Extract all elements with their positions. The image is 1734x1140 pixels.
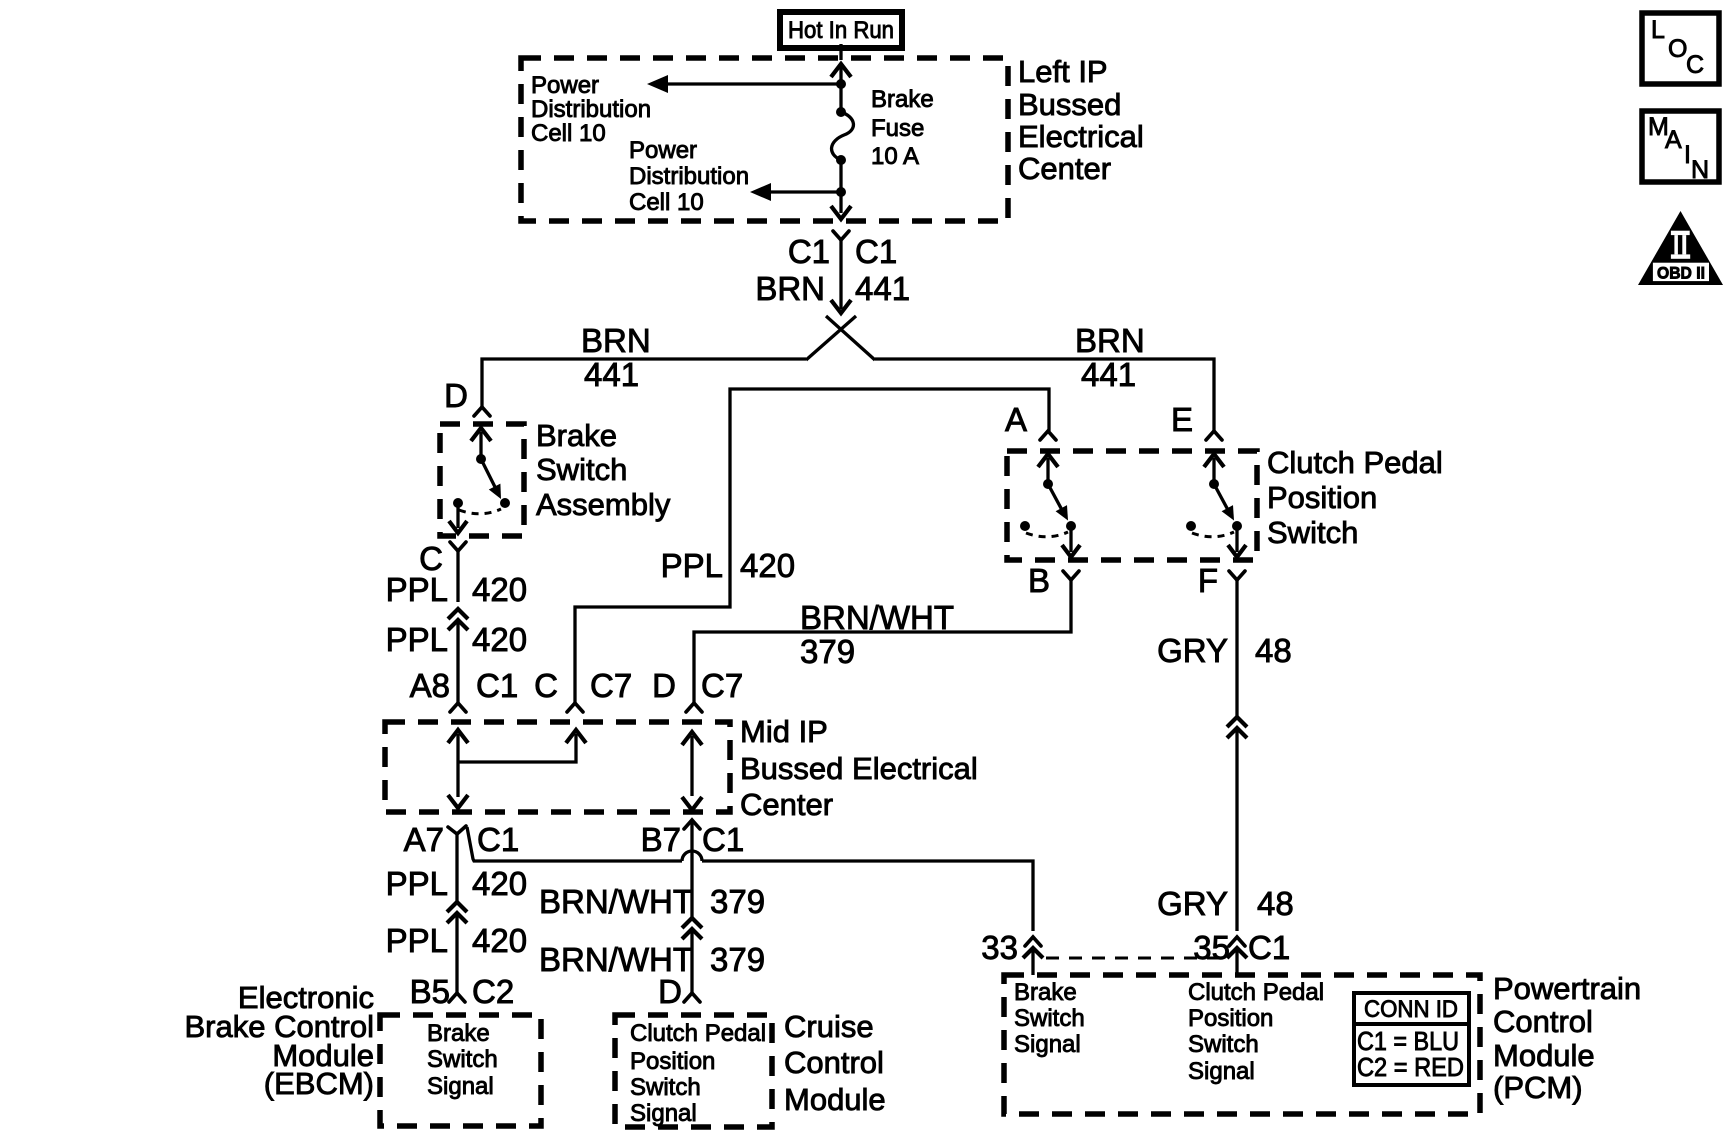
connector D fork at brake switch xyxy=(474,407,490,416)
label: Brake Switch Assembly xyxy=(536,418,671,522)
wire: BRN/WHT 379 down from B7 xyxy=(690,822,693,918)
svg-text:35: 35 xyxy=(1193,929,1230,966)
splice: in-line connector on BRN/WHT 379 to cruise module xyxy=(682,918,702,939)
svg-text:379: 379 xyxy=(710,941,765,978)
connector D fork at Mid IP BEC (C7) xyxy=(686,703,702,712)
label: D | C7 xyxy=(652,667,743,704)
svg-text:D: D xyxy=(652,667,676,704)
Brake Switch Signal box (EBCM) xyxy=(380,1015,541,1126)
label: Clutch Pedal Position Switch Signal (PCM) xyxy=(1188,979,1324,1085)
power source box: Hot In Run xyxy=(780,12,902,48)
node: junction dot feed/branch 1 xyxy=(836,79,846,89)
label: Brake Fuse 10 A xyxy=(871,86,934,170)
wire: GRY 48 to PCM pin 35 xyxy=(1235,729,1238,931)
svg-text:B7: B7 xyxy=(641,821,681,858)
label: Cruise Control Module xyxy=(784,1009,886,1117)
connector E fork at clutch switch xyxy=(1206,431,1222,440)
svg-text:C: C xyxy=(534,667,558,704)
svg-text:Clutch Pedal: Clutch Pedal xyxy=(630,1020,766,1047)
wire: PPL 420 down from A7 xyxy=(455,834,458,902)
svg-text:I: I xyxy=(1684,141,1691,169)
connector B5 fork at EBCM xyxy=(449,993,465,1002)
svg-text:Switch: Switch xyxy=(1267,515,1358,550)
splice: in-line connector on PPL 420 to EBCM xyxy=(447,902,467,923)
label: A7 | C1 xyxy=(404,821,520,858)
label: Mid IP Bussed Electrical Center xyxy=(740,714,978,822)
connector C1 fork below Left IP BEC xyxy=(833,231,849,240)
label: PPL | 420 (riser) xyxy=(661,547,795,584)
svg-text:Cell 10: Cell 10 xyxy=(531,120,606,147)
internal bus: A8 to A7 and C7-C inside Mid IP xyxy=(448,730,586,808)
svg-text:Clutch Pedal: Clutch Pedal xyxy=(1267,445,1443,480)
wire: BRN 441 right branch to clutch switch pin E xyxy=(875,359,1214,431)
label: Power Distribution Cell 10 (upper) xyxy=(531,72,651,147)
svg-text:Bussed Electrical: Bussed Electrical xyxy=(740,751,978,786)
label: GRY | 48 (lower) xyxy=(1157,885,1294,922)
label: BRN 441 (left branch) xyxy=(581,322,651,393)
svg-text:F: F xyxy=(1198,562,1218,599)
switch SW3: clutch switch E-F contacts xyxy=(1186,454,1246,557)
Powertrain Control Module box xyxy=(1004,975,1480,1114)
connector D fork at cruise module xyxy=(684,993,700,1002)
svg-text:PPL: PPL xyxy=(386,571,448,608)
svg-text:(PCM): (PCM) xyxy=(1493,1070,1583,1105)
svg-text:B: B xyxy=(1028,562,1050,599)
svg-text:OBD II: OBD II xyxy=(1657,264,1705,283)
svg-text:Power: Power xyxy=(531,72,599,99)
svg-text:Left IP: Left IP xyxy=(1018,54,1108,89)
svg-text:C2 = RED: C2 = RED xyxy=(1357,1052,1464,1082)
svg-text:BRN: BRN xyxy=(755,270,825,307)
svg-text:A7: A7 xyxy=(404,821,444,858)
label: C1 | C1 xyxy=(788,233,897,270)
switch SW1: brake switch contacts xyxy=(449,428,510,533)
svg-text:33: 33 xyxy=(981,929,1018,966)
svg-text:Brake: Brake xyxy=(427,1020,490,1047)
label: PPL | 420 (upper) xyxy=(386,571,527,608)
svg-text:O: O xyxy=(1668,35,1687,63)
label: Brake Switch Signal (PCM) xyxy=(1014,979,1085,1058)
svg-text:Bussed: Bussed xyxy=(1018,87,1121,122)
svg-text:Brake: Brake xyxy=(871,86,934,113)
svg-text:BRN/WHT: BRN/WHT xyxy=(539,883,693,920)
svg-text:B5: B5 xyxy=(410,973,450,1010)
wire: branch to Power Distribution Cell 10 (upper), arrow left xyxy=(647,75,841,93)
connector F fork below clutch switch xyxy=(1229,571,1245,580)
svg-text:PPL: PPL xyxy=(386,621,448,658)
svg-text:C1: C1 xyxy=(1248,929,1290,966)
svg-text:GRY: GRY xyxy=(1157,632,1228,669)
label: pin D (cruise module) xyxy=(658,973,682,1010)
svg-text:420: 420 xyxy=(472,571,527,608)
svg-text:10 A: 10 A xyxy=(871,143,919,170)
dashed link between PCM pins 33 and 35 (same connector) xyxy=(1046,957,1224,960)
Clutch Pedal Position Switch box xyxy=(1007,451,1257,560)
svg-text:420: 420 xyxy=(740,547,795,584)
svg-text:420: 420 xyxy=(472,922,527,959)
label: Powertrain Control Module (PCM) xyxy=(1493,971,1641,1105)
label: 35 | C1 (PCM) xyxy=(1193,929,1290,966)
label: A8 | C1 xyxy=(410,667,519,704)
svg-text:Power: Power xyxy=(629,137,697,164)
svg-text:BRN/WHT: BRN/WHT xyxy=(800,599,954,636)
splice: X split of BRN 441 xyxy=(806,316,875,360)
arrow up toward Hot In Run xyxy=(831,64,851,85)
svg-text:Position: Position xyxy=(1188,1005,1273,1032)
svg-text:L: L xyxy=(1651,16,1665,44)
svg-text:N: N xyxy=(1691,156,1709,184)
label: pin E (clutch switch) xyxy=(1171,401,1193,438)
switch SW2: clutch switch A-B contacts xyxy=(1020,454,1080,557)
label: B5 | C2 xyxy=(410,973,515,1010)
connector C fork at Mid IP BEC (C7) xyxy=(567,703,583,712)
svg-text:Switch: Switch xyxy=(1188,1031,1259,1058)
fuse: Brake Fuse 10 A xyxy=(832,107,854,165)
svg-text:Position: Position xyxy=(1267,480,1377,515)
svg-text:Signal: Signal xyxy=(427,1073,494,1100)
svg-text:Fuse: Fuse xyxy=(871,115,924,142)
label: Power Distribution Cell 10 (lower) xyxy=(629,137,749,216)
svg-text:Module: Module xyxy=(784,1082,886,1117)
svg-text:PPL: PPL xyxy=(386,865,448,902)
CONN ID table xyxy=(1354,993,1469,1085)
wire: GRY 48 down from F xyxy=(1235,580,1238,717)
wire: BRN/WHT 379 into cruise module xyxy=(690,930,693,993)
label: pin 33 (PCM) xyxy=(981,929,1018,966)
svg-text:CONN ID: CONN ID xyxy=(1364,996,1458,1023)
wire: PPL 420 into EBCM xyxy=(455,914,458,993)
svg-text:C7: C7 xyxy=(701,667,743,704)
label: pin D (brake switch) xyxy=(444,377,468,414)
label: C | C7 xyxy=(534,667,632,704)
svg-text:441: 441 xyxy=(855,270,910,307)
icon: MAIN box xyxy=(1642,111,1719,184)
svg-text:Hot In Run: Hot In Run xyxy=(788,17,894,44)
connector 35 fork at PCM xyxy=(1227,937,1247,975)
label: BRN/WHT 379 (upper run) xyxy=(800,599,954,670)
svg-text:D: D xyxy=(658,973,682,1010)
svg-text:Mid IP: Mid IP xyxy=(740,714,828,749)
connector 33 fork at PCM xyxy=(1023,937,1043,975)
label: BRN/WHT | 379 (B7 upper) xyxy=(539,883,765,920)
splice: in-line connector on GRY 48 xyxy=(1227,717,1247,738)
svg-text:Brake: Brake xyxy=(1014,979,1077,1006)
svg-text:PPL: PPL xyxy=(661,547,723,584)
svg-text:48: 48 xyxy=(1257,885,1294,922)
connector A8 fork at Mid IP BEC xyxy=(450,703,466,712)
svg-text:C1: C1 xyxy=(477,821,519,858)
node: junction dot branch 2 xyxy=(836,187,846,197)
label: PPL | 420 (A7 upper) xyxy=(386,865,527,902)
label: pin F (clutch switch) xyxy=(1198,562,1218,599)
label: Left IP Bussed Electrical Center xyxy=(1018,54,1144,186)
icon: OBD II triangle xyxy=(1638,211,1723,285)
svg-text:E: E xyxy=(1171,401,1193,438)
Mid IP Bussed Electrical Center box xyxy=(385,722,730,812)
svg-text:Cell 10: Cell 10 xyxy=(629,189,704,216)
svg-text:Switch: Switch xyxy=(427,1046,498,1073)
connector B7 fork below Mid IP BEC xyxy=(684,820,700,829)
wire: branch from A7 to PCM pin 33 (with hop over B7 wire) xyxy=(467,827,1033,931)
svg-text:D: D xyxy=(444,377,468,414)
label: pin A (clutch switch) xyxy=(1005,401,1027,438)
svg-text:A: A xyxy=(1005,401,1027,438)
connector C fork below brake switch xyxy=(450,542,466,551)
svg-text:C1: C1 xyxy=(855,233,897,270)
svg-text:PPL: PPL xyxy=(386,922,448,959)
svg-text:Control: Control xyxy=(1493,1004,1593,1039)
svg-text:420: 420 xyxy=(472,621,527,658)
svg-text:GRY: GRY xyxy=(1157,885,1228,922)
label: PPL | 420 (lower) xyxy=(386,621,527,658)
svg-text:BRN: BRN xyxy=(1075,322,1145,359)
svg-text:Center: Center xyxy=(1018,151,1111,186)
svg-text:A: A xyxy=(1665,126,1682,154)
connector B fork below clutch switch xyxy=(1063,571,1079,580)
wire: fuse output down xyxy=(839,160,842,213)
svg-text:Powertrain: Powertrain xyxy=(1493,971,1641,1006)
label: BRN | 441 trunk xyxy=(755,270,910,307)
svg-text:Cruise: Cruise xyxy=(784,1009,874,1044)
label: PPL | 420 (A7 lower) xyxy=(386,922,527,959)
Left IP Bussed Electrical Center box xyxy=(521,58,1008,221)
svg-text:Switch: Switch xyxy=(536,452,627,487)
svg-text:Signal: Signal xyxy=(1188,1058,1255,1085)
svg-text:441: 441 xyxy=(584,356,639,393)
label: GRY | 48 (upper) xyxy=(1157,632,1292,669)
internal bus: D(C7) to B7 inside Mid IP xyxy=(682,732,702,810)
svg-text:Clutch Pedal: Clutch Pedal xyxy=(1188,979,1324,1006)
svg-text:Position: Position xyxy=(630,1048,715,1075)
svg-text:C7: C7 xyxy=(590,667,632,704)
svg-text:420: 420 xyxy=(472,865,527,902)
svg-text:Module: Module xyxy=(1493,1038,1595,1073)
svg-text:(EBCM): (EBCM) xyxy=(264,1066,374,1101)
svg-text:441: 441 xyxy=(1081,356,1136,393)
wire: Hot In Run feed into Left IP BEC xyxy=(839,44,842,60)
wire: branch to Power Distribution Cell 10 (lower), arrow left xyxy=(750,183,841,201)
svg-text:48: 48 xyxy=(1255,632,1292,669)
svg-text:Switch: Switch xyxy=(630,1074,701,1101)
svg-text:Switch: Switch xyxy=(1014,1005,1085,1032)
svg-text:379: 379 xyxy=(710,883,765,920)
label: Electronic Brake Control Module (EBCM) xyxy=(184,980,374,1101)
icon: LOC box xyxy=(1642,13,1719,84)
label: BRN 441 (right branch) xyxy=(1075,322,1145,393)
label: Clutch Pedal Position Switch xyxy=(1267,445,1443,550)
wire: PPL 420 to Mid IP A8 xyxy=(456,621,459,703)
wire: BRN 441 trunk with down arrow xyxy=(831,240,851,313)
svg-text:C: C xyxy=(1686,51,1704,79)
svg-text:C1: C1 xyxy=(476,667,518,704)
wire: PPL 420 riser to clutch switch pin A xyxy=(575,389,1049,703)
svg-text:C2: C2 xyxy=(472,973,514,1010)
connector A7 fork below Mid IP BEC xyxy=(448,826,466,834)
wire: junction to fuse xyxy=(839,84,842,112)
label: Brake Switch Signal (EBCM) xyxy=(427,1020,498,1100)
svg-text:Center: Center xyxy=(740,787,833,822)
svg-text:Distribution: Distribution xyxy=(531,96,651,123)
svg-text:Signal: Signal xyxy=(1014,1031,1081,1058)
svg-text:C1: C1 xyxy=(788,233,830,270)
label: pin C (brake switch) xyxy=(419,540,443,577)
Brake Switch Assembly box xyxy=(440,424,524,536)
svg-text:BRN: BRN xyxy=(581,322,651,359)
label: BRN/WHT | 379 (B7 lower) xyxy=(539,941,765,978)
svg-text:Control: Control xyxy=(784,1045,884,1080)
svg-text:Brake: Brake xyxy=(536,418,617,453)
svg-text:379: 379 xyxy=(800,633,855,670)
svg-text:Signal: Signal xyxy=(630,1100,697,1127)
label: pin B (clutch switch) xyxy=(1028,562,1050,599)
svg-text:Electrical: Electrical xyxy=(1018,119,1144,154)
connector A fork at clutch switch xyxy=(1040,431,1056,440)
label: Clutch Pedal Position Switch Signal (cruise) xyxy=(630,1020,766,1127)
svg-text:A8: A8 xyxy=(410,667,450,704)
wire: BRN/WHT 379 from clutch pin B to Mid IP D xyxy=(694,580,1071,703)
svg-text:Assembly: Assembly xyxy=(536,487,671,522)
Clutch Pedal Position Switch Signal box (cruise) xyxy=(615,1015,772,1127)
arrow down leaving Left IP BEC xyxy=(831,206,851,219)
wire: PPL 420 from brake switch xyxy=(456,551,459,602)
svg-text:Distribution: Distribution xyxy=(629,163,749,190)
wire: BRN 441 left branch to brake switch pin D xyxy=(482,359,806,407)
svg-text:C1: C1 xyxy=(702,821,744,858)
label: B7 | C1 xyxy=(641,821,745,858)
splice: in-line connector on PPL 420 xyxy=(448,609,468,630)
